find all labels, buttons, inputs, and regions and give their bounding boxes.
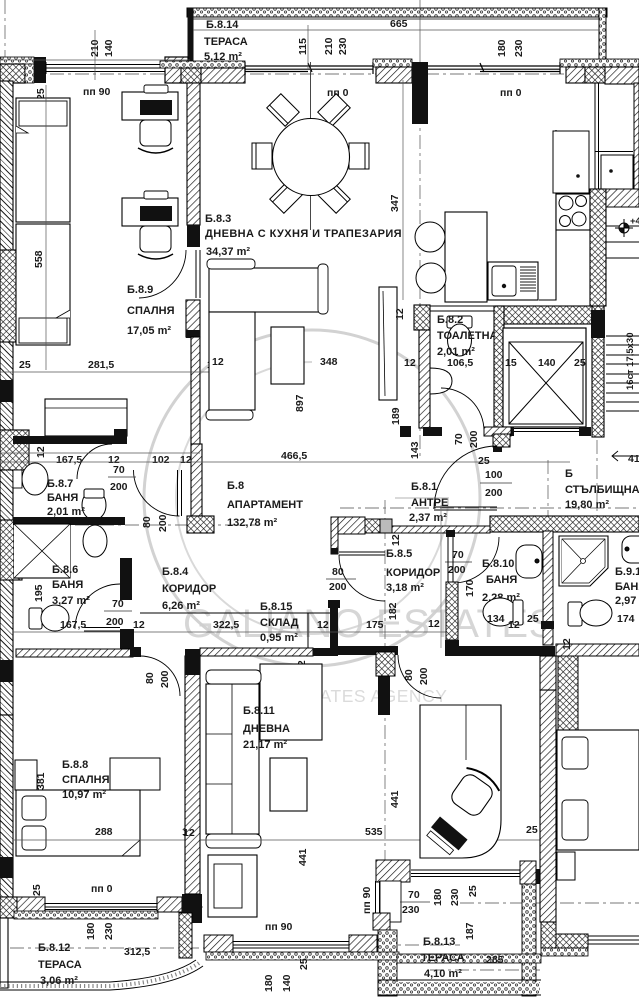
left wall black block bottom [0, 857, 13, 878]
sofa seat line [209, 311, 255, 313]
under-terrace insulation strip mid [373, 59, 412, 67]
svg-text:Б.8.10: Б.8.10 [482, 558, 514, 570]
svg-text:Б.8.9: Б.8.9 [127, 284, 153, 296]
svg-text:12: 12 [404, 357, 416, 369]
svg-text:пп 0: пп 0 [91, 883, 113, 895]
wall dnevna/koridor5 black piece [338, 646, 398, 655]
svg-text:182: 182 [387, 602, 399, 620]
svg-text:41: 41 [628, 453, 639, 465]
coffee table dnevna [270, 758, 307, 811]
kitchen round stool 1 [415, 222, 445, 252]
svg-text:25: 25 [527, 613, 539, 625]
svg-text:200: 200 [159, 670, 171, 688]
wall black block top [185, 649, 200, 675]
dining chairs x6 [252, 94, 369, 214]
sofa dnevna back top [206, 670, 261, 684]
left exterior wall masonry lower [0, 470, 13, 715]
bath7 toilet [82, 489, 106, 520]
top-left insulation strip [0, 57, 34, 65]
top-left stipple block [25, 64, 34, 83]
window dnevna bottom [233, 942, 349, 949]
wall bedroom8 top hatched [16, 649, 133, 657]
axis line horizontal terrace12 [10, 947, 205, 949]
bath7 door arc [77, 444, 112, 479]
svg-text:19,80 m²: 19,80 m² [565, 499, 609, 511]
svg-text:Б: Б [565, 468, 573, 480]
svg-text:167,5: 167,5 [56, 454, 82, 466]
svg-text:200: 200 [448, 564, 466, 576]
svg-text:210: 210 [323, 37, 335, 55]
svg-text:665: 665 [390, 18, 408, 30]
desk 2 computer dark [140, 206, 172, 221]
svg-text:ДНЕВНА: ДНЕВНА [243, 723, 290, 735]
svg-text:132,78 m²: 132,78 m² [227, 517, 277, 529]
terrace13 bottom stipple [379, 982, 540, 994]
axis line horizontal bottom center [205, 944, 460, 946]
svg-text:200: 200 [468, 430, 480, 448]
wall koridor5 right column cap [445, 640, 459, 656]
svg-text:200: 200 [485, 487, 503, 499]
bath7 wash basin [22, 463, 48, 495]
dimension line x441 [440, 505, 442, 648]
under-terrace crosshatch pier right [585, 67, 607, 83]
svg-text:134: 134 [487, 613, 505, 625]
wall bedroom8 bottom hatch left [17, 897, 45, 912]
svg-text:Б.8.15: Б.8.15 [260, 601, 292, 613]
elevator bottom wall caps [502, 427, 514, 436]
svg-text:70: 70 [113, 464, 125, 476]
svg-text:347: 347 [389, 194, 401, 212]
svg-text:25: 25 [467, 885, 479, 897]
left wall crosshatch bottom [0, 897, 17, 918]
svg-text:70: 70 [452, 549, 464, 561]
bath10 door leaf [448, 537, 453, 582]
svg-text:ТЕРАСА: ТЕРАСА [38, 959, 82, 971]
left wall black column [0, 380, 13, 402]
svg-text:12: 12 [35, 446, 47, 458]
right edge diag wall [634, 83, 639, 189]
top-left crosshatch wall block [0, 64, 25, 83]
svg-text:ТЕРАСА: ТЕРАСА [421, 952, 465, 964]
kitchen sink unit [488, 262, 538, 300]
left exterior wall masonry [0, 81, 13, 430]
svg-text:535: 535 [365, 826, 383, 838]
wall bedroom9/living black block2 [186, 330, 200, 338]
kitchen round stool 2 [416, 263, 446, 293]
wall office/bedroom9 big hatch [540, 690, 556, 922]
wall koridor5 right column [446, 582, 458, 640]
svg-text:пп 90: пп 90 [83, 86, 110, 98]
svg-text:16ст 17,5х30: 16ст 17,5х30 [625, 333, 636, 390]
svg-text:4,10 m²: 4,10 m² [424, 968, 462, 980]
bed 1 bedroom9 [16, 98, 70, 222]
balcony door window right [428, 62, 560, 74]
left exterior wall masonry bottom [0, 715, 13, 897]
svg-text:140: 140 [281, 974, 293, 992]
svg-text:12: 12 [183, 827, 195, 839]
svg-text:КОРИДОР: КОРИДОР [162, 583, 216, 595]
toilet WC fixture [447, 316, 472, 356]
svg-text:ТЕРАСА: ТЕРАСА [204, 36, 248, 48]
svg-text:пп 0: пп 0 [500, 87, 522, 99]
svg-text:25: 25 [478, 455, 490, 467]
svg-text:21,17 m²: 21,17 m² [243, 739, 287, 751]
terrace12 left border [0, 918, 8, 988]
svg-text:Б.8.8: Б.8.8 [62, 759, 88, 771]
kitchen counter island [445, 212, 487, 302]
hall door leaf [178, 470, 182, 516]
office chair 2 bedroom9 [138, 226, 173, 259]
svg-text:АНТРЕ: АНТРЕ [411, 497, 448, 509]
svg-text:230: 230 [337, 37, 349, 55]
desk 1 bedroom9 [122, 92, 178, 120]
svg-text:102: 102 [152, 454, 170, 466]
svg-text:200: 200 [418, 667, 430, 685]
axis line vertical stair [547, 460, 549, 530]
window top-left bedroom [46, 62, 165, 74]
dimension line top [307, 25, 309, 70]
svg-text:КОРИДОР: КОРИДОР [386, 567, 440, 579]
svg-text:Б.8.14: Б.8.14 [206, 19, 239, 31]
svg-text:пп 90: пп 90 [265, 921, 292, 933]
svg-text:Б.9.1: Б.9.1 [615, 566, 639, 578]
bath6 door leaf [84, 628, 120, 632]
svg-text:БАНЯ: БАНЯ [486, 574, 517, 586]
wall bath6/koridor stub black [120, 629, 134, 651]
dnevna bottom wall hatch left [204, 935, 233, 952]
bed 2 pillow bedroom9 [19, 318, 67, 343]
bed fold bedroom8 [122, 840, 140, 856]
svg-text:Б.8.5: Б.8.5 [386, 548, 412, 560]
top-left black pier [34, 57, 46, 83]
elevation mark circle-cross [615, 219, 633, 237]
sofa dnevna armrest [206, 834, 261, 848]
right wall band diag [606, 189, 639, 207]
svg-text:3,06 m²: 3,06 m² [40, 975, 78, 987]
wall column crosshatch below office [373, 913, 390, 930]
toilet room left wall [419, 330, 430, 428]
sofa dnevna vertical [206, 684, 259, 834]
wall office bottom hatch block [376, 860, 410, 882]
svg-text:12: 12 [394, 308, 406, 320]
toilet wash basin [430, 368, 452, 394]
wall office left black bar [378, 655, 390, 715]
terrace B.8.14 left border bar [188, 8, 194, 84]
coffee table living [271, 327, 304, 384]
svg-text:70: 70 [408, 889, 420, 901]
svg-text:441: 441 [389, 790, 401, 808]
wall bedroom9/living upper [187, 83, 200, 225]
svg-text:ДНЕВНА С КУХНЯ И ТРАПЕЗАРИЯ: ДНЕВНА С КУХНЯ И ТРАПЕЗАРИЯ [205, 228, 402, 240]
right insulation strip [541, 948, 588, 956]
wall black corner bedroom8 right [182, 894, 202, 923]
right bedroom bed [557, 730, 639, 850]
svg-text:12: 12 [508, 619, 520, 631]
right bottom wall black corner [556, 934, 588, 948]
wardrobe bedroom9 [45, 399, 127, 436]
bed bedroom8 [16, 790, 140, 856]
watermark logo circle [144, 330, 480, 666]
wall big hatch upper part [540, 656, 556, 690]
koridor5 wall band hatch bar [392, 526, 490, 533]
koridor5 wall band gray block [380, 519, 392, 533]
terrace12 curved edge [0, 960, 196, 982]
left wall crosshatch block mid [0, 250, 22, 342]
svg-text:Б.8.3: Б.8.3 [205, 213, 231, 225]
koridor5 wall band cross block [365, 519, 380, 533]
elevator left wall crosshatch [494, 306, 504, 428]
under-terrace crosshatch pier [181, 68, 201, 83]
kitchen right wall crosshatch [590, 189, 606, 306]
entrance door arc [434, 446, 497, 509]
bedroom9 door arc [139, 250, 186, 298]
wall bath10 bottom [459, 646, 555, 656]
axis line vertical left [4, 0, 6, 130]
koridor5 door leaf [339, 552, 385, 555]
storage closet B.8.15 outline [140, 613, 330, 648]
svg-text:230: 230 [449, 888, 461, 906]
elevator X diagonals [509, 342, 583, 424]
bath10 door arc [454, 537, 499, 583]
svg-text:230: 230 [402, 904, 420, 916]
svg-text:Б.8.13: Б.8.13 [423, 936, 455, 948]
terrace B.8.14 top insulation band [187, 8, 607, 17]
svg-text:466,5: 466,5 [281, 450, 307, 462]
wall dnevna top black piece [313, 648, 338, 656]
svg-text:Б.8.1: Б.8.1 [411, 481, 437, 493]
wall office bottom right black [536, 869, 556, 884]
right bottom window [588, 936, 639, 944]
bed 2 bedroom9 [16, 224, 70, 345]
under-terrace masonry pier mid [376, 67, 412, 83]
toilet bottom-left block [400, 426, 411, 437]
kitchen stove 4 burners [556, 194, 590, 230]
svg-text:230: 230 [513, 39, 525, 57]
left wall crosshatch block at bath6 [0, 520, 22, 580]
insulation strip dnevna bottom [206, 952, 399, 960]
left wall black column2 [0, 660, 13, 682]
bath9.1 toilet [568, 600, 612, 626]
terrace13 top insulation [397, 954, 541, 963]
sofa L vertical part [209, 312, 255, 410]
svg-text:143: 143 [409, 441, 421, 459]
svg-text:2,01 m²: 2,01 m² [47, 506, 85, 518]
watermark logo inner arc [176, 362, 448, 634]
bath10 door black cap [446, 530, 455, 537]
axis line vertical lower center [384, 500, 386, 962]
svg-text:БАНЯ: БАНЯ [615, 581, 639, 593]
bedroom8 door arc [140, 656, 180, 696]
svg-text:2,37 m²: 2,37 m² [409, 512, 447, 524]
antre top wall black segment [484, 427, 511, 436]
desk 1 computer dark [140, 100, 172, 115]
svg-text:80: 80 [403, 669, 415, 681]
tv stand dnevna [208, 855, 257, 917]
bath6 toilet [29, 605, 69, 631]
terrace B.8.14 inner rail line [193, 18, 600, 20]
office chair 1 bedroom9 [138, 120, 173, 153]
bed 1 fold bedroom9 [16, 126, 28, 133]
terrace B.8.14 right border bar [599, 8, 606, 62]
svg-text:Б.8: Б.8 [227, 480, 244, 492]
dining table extension line [310, 62, 312, 230]
bed 1 pillow bedroom9 [19, 101, 67, 126]
wall bedroom9 bottom [13, 436, 127, 444]
svg-text:25: 25 [31, 884, 43, 896]
bed 2 fold bedroom9 [56, 310, 70, 318]
wall pier between window and terrace [165, 57, 188, 83]
svg-text:230: 230 [103, 922, 115, 940]
hall door arc [134, 470, 180, 516]
axis line below elevator [596, 440, 598, 516]
kitchen counter right edge [539, 130, 556, 300]
svg-text:Б.8.4: Б.8.4 [162, 566, 189, 578]
svg-text:285: 285 [486, 954, 504, 966]
terrace13 right stipple column [522, 884, 536, 996]
toilet room top-left crosshatch block [414, 305, 430, 330]
door to terrace13 leaf [376, 881, 380, 922]
svg-text:2,97 m: 2,97 m [615, 595, 639, 607]
svg-text:25: 25 [574, 357, 586, 369]
svg-text:115: 115 [297, 38, 309, 55]
top-right wall corner hatch [605, 67, 639, 84]
svg-text:12: 12 [212, 356, 224, 368]
bedroom8 nightstand top [15, 760, 37, 790]
wall bedroom9/living black block [187, 225, 200, 247]
window office bottom [411, 870, 520, 877]
wall bedroom8 bottom hatch right [157, 897, 182, 912]
wall hall column lower [191, 444, 202, 516]
wall bath10/9.1 black piece [541, 621, 554, 629]
toilet door arc [441, 388, 484, 431]
wall stair bottom crosshatch [490, 516, 639, 532]
svg-text:281,5: 281,5 [88, 359, 114, 371]
svg-text:322,5: 322,5 [213, 619, 239, 631]
svg-text:200: 200 [157, 514, 169, 532]
svg-text:БАНЯ: БАНЯ [52, 579, 83, 591]
svg-text:558: 558 [33, 250, 45, 268]
axis line horizontal top [0, 73, 639, 75]
svg-text:441: 441 [297, 848, 309, 866]
dimension line bedroom9 vertical [45, 85, 47, 370]
axis line horizontal bottom left [14, 906, 205, 908]
elevator right wall black piece [591, 310, 605, 338]
office chair [446, 764, 502, 821]
svg-text:12: 12 [561, 638, 573, 650]
toilet bottom wall black [423, 427, 442, 436]
wall bath7 bottom black [13, 517, 125, 525]
wall dnevna top long hatched [200, 648, 313, 656]
svg-text:34,37 m²: 34,37 m² [206, 246, 250, 258]
svg-text:СПАЛНЯ: СПАЛНЯ [62, 774, 110, 786]
svg-text:12: 12 [180, 454, 192, 466]
wall stub black at pp0 [412, 62, 428, 124]
svg-text:25: 25 [19, 359, 31, 371]
svg-text:6,26 m²: 6,26 m² [162, 600, 200, 612]
bedroom9 corner crosshatch column [558, 656, 578, 730]
elevator door lines [514, 429, 579, 432]
storage right wall black [330, 600, 338, 650]
bath10 toilet [483, 598, 523, 626]
sofa dnevna chaise [260, 664, 322, 740]
svg-text:70: 70 [112, 598, 124, 610]
entrance door leaf [434, 507, 497, 510]
terrace12 right crosshatch pier [179, 913, 192, 958]
svg-text:пп 90: пп 90 [361, 887, 373, 914]
svg-text:80: 80 [141, 516, 153, 528]
svg-text:БАНЯ: БАНЯ [47, 492, 78, 504]
svg-text:106,5: 106,5 [447, 357, 473, 369]
svg-text:167,5: 167,5 [60, 619, 86, 631]
svg-text:187: 187 [464, 922, 476, 940]
kitchen tall cabinet [379, 287, 397, 400]
insulation strip bedroom8 bottom [14, 911, 158, 919]
dining table round [273, 119, 350, 196]
svg-text:174: 174 [617, 613, 635, 625]
under-terrace masonry pier [201, 68, 245, 83]
elevator shaft box [503, 328, 586, 427]
door arc office [398, 655, 441, 698]
svg-text:195: 195 [33, 584, 45, 602]
koridor5 wall band diag block [331, 517, 365, 534]
axis line horizontal bottom right2 [430, 969, 540, 971]
svg-text:12: 12 [428, 618, 440, 630]
svg-text:140: 140 [103, 39, 115, 57]
svg-text:25: 25 [298, 958, 310, 970]
stair direction arrow [612, 451, 639, 461]
wall hall column crosshatch foot [187, 516, 214, 533]
svg-text:17,05 m²: 17,05 m² [127, 325, 171, 337]
svg-text:АПАРТАМЕНТ: АПАРТАМЕНТ [227, 499, 303, 511]
axis line horizontal middle right [340, 507, 639, 509]
wall bath6/koridor black vertical [120, 558, 132, 600]
svg-text:Б.8.7: Б.8.7 [47, 478, 73, 490]
wall crosshatch block bottom [541, 922, 556, 948]
svg-text:25: 25 [526, 824, 538, 836]
bath6 shower cabin [14, 524, 70, 578]
neighbour stair lines [606, 226, 639, 258]
bed pillows bedroom8 [22, 796, 46, 820]
svg-text:12: 12 [390, 534, 402, 546]
svg-text:15: 15 [505, 357, 517, 369]
svg-text:140: 140 [538, 357, 556, 369]
svg-text:3,18 m²: 3,18 m² [386, 582, 424, 594]
desk 2 bedroom9 [122, 198, 178, 226]
svg-text:ТОАЛЕТНА: ТОАЛЕТНА [437, 330, 498, 342]
svg-text:180: 180 [496, 39, 508, 57]
svg-text:Б.8.12: Б.8.12 [38, 942, 70, 954]
office keyboard dark [425, 817, 467, 858]
right bed pillows [562, 737, 588, 769]
antre corner block [493, 434, 510, 447]
svg-text:Б.8.2: Б.8.2 [437, 314, 463, 326]
svg-text:348: 348 [320, 356, 338, 368]
svg-text:170: 170 [464, 579, 476, 597]
terrace12 curved edge stipple [0, 963, 199, 986]
svg-text:80: 80 [332, 566, 344, 578]
koridor5 door arc [339, 555, 385, 601]
bath10 wash basin [516, 545, 542, 578]
elevator right wall crosshatch [592, 306, 604, 437]
toilet room top wall thin [430, 306, 494, 311]
wall office bottom right hatch block [520, 861, 536, 884]
svg-text:312,5: 312,5 [124, 946, 150, 958]
svg-text:+4,25: +4,25 [630, 216, 639, 227]
window bedroom8 [45, 904, 157, 910]
svg-text:Б.8.6: Б.8.6 [52, 564, 78, 576]
terrace13 bottom edge [378, 980, 541, 995]
office desk [420, 705, 501, 858]
